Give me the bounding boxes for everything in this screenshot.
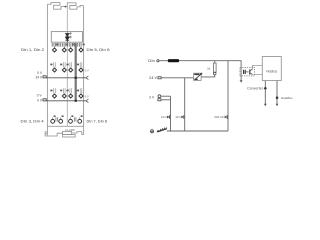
- svg-text:DIn 3, DIn 4: DIn 3, DIn 4: [21, 120, 44, 124]
- svg-text:0 V: 0 V: [85, 68, 89, 72]
- svg-text:220 nF: 220 nF: [214, 115, 224, 119]
- svg-text:10 nF: 10 nF: [175, 115, 183, 119]
- svg-text:DIn 5, DIn 6: DIn 5, DIn 6: [87, 48, 110, 52]
- svg-text:DIn: DIn: [148, 59, 155, 63]
- svg-text:0 V: 0 V: [149, 95, 154, 99]
- svg-text:DIn 1, DIn 2: DIn 1, DIn 2: [21, 48, 44, 52]
- svg-text:Fieldbus: Fieldbus: [266, 69, 277, 73]
- svg-text:KL1408: KL1408: [65, 128, 75, 132]
- svg-text:DIn 7, DIn 8: DIn 7, DIn 8: [87, 120, 108, 124]
- svg-text:10 nF: 10 nF: [161, 115, 169, 119]
- svg-text:0 V: 0 V: [85, 94, 89, 98]
- svg-text:24 V: 24 V: [35, 76, 42, 80]
- svg-text:DataBus: DataBus: [281, 96, 293, 100]
- svg-text:1k: 1k: [207, 66, 211, 70]
- svg-text:Converter: Converter: [247, 87, 264, 91]
- svg-text:24 V: 24 V: [149, 76, 158, 80]
